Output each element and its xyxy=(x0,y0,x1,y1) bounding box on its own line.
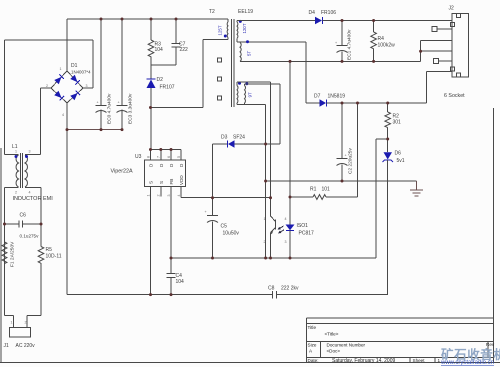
svg-text:1: 1 xyxy=(15,150,17,154)
svg-text:AC 220v: AC 220v xyxy=(16,343,36,349)
svg-text:SF24: SF24 xyxy=(233,135,245,141)
svg-text:1: 1 xyxy=(60,67,62,71)
svg-text:6: 6 xyxy=(167,156,171,158)
svg-text:+: + xyxy=(345,154,347,158)
svg-text:T2: T2 xyxy=(209,9,215,15)
svg-text:S: S xyxy=(149,181,154,184)
svg-text:+: + xyxy=(335,41,337,45)
svg-text:FR107: FR107 xyxy=(160,85,175,91)
svg-text:6 Socket: 6 Socket xyxy=(444,93,465,99)
svg-text:10u50v: 10u50v xyxy=(223,231,240,237)
svg-text:1: 1 xyxy=(264,217,266,221)
svg-text:2: 2 xyxy=(25,321,27,325)
svg-text:www.crystalradio.cn: www.crystalradio.cn xyxy=(440,360,494,366)
svg-text:100k2w: 100k2w xyxy=(378,43,396,49)
svg-text:Title: Title xyxy=(308,325,317,330)
svg-text:1N4007*4: 1N4007*4 xyxy=(71,70,91,75)
svg-text:C8: C8 xyxy=(268,286,275,292)
svg-text:R5: R5 xyxy=(46,247,53,253)
svg-text:INDUCTOR EMI: INDUCTOR EMI xyxy=(13,196,54,202)
svg-text:2: 2 xyxy=(15,191,17,195)
svg-text:Date:: Date: xyxy=(308,358,319,363)
svg-text:<Doc>: <Doc> xyxy=(327,349,341,354)
svg-text:D3: D3 xyxy=(221,135,228,141)
svg-text:PC817: PC817 xyxy=(299,231,315,237)
svg-text:4: 4 xyxy=(285,217,287,221)
svg-text:EEL19: EEL19 xyxy=(238,9,253,15)
svg-text:Viper22A: Viper22A xyxy=(111,169,133,175)
svg-text:FR106: FR106 xyxy=(321,10,336,16)
svg-text:2: 2 xyxy=(46,84,48,88)
svg-text:4: 4 xyxy=(177,195,181,197)
svg-text:104: 104 xyxy=(176,279,185,285)
svg-text:4: 4 xyxy=(29,191,31,195)
svg-text:5T: 5T xyxy=(247,51,252,56)
svg-text:VDD: VDD xyxy=(179,175,184,185)
svg-text:D4: D4 xyxy=(309,10,316,16)
svg-text:1: 1 xyxy=(146,195,150,197)
svg-text:EC0 4.7u400v: EC0 4.7u400v xyxy=(107,93,113,124)
svg-text:10D-11: 10D-11 xyxy=(46,254,62,260)
svg-text:+: + xyxy=(97,101,99,105)
svg-text:Document Number: Document Number xyxy=(327,343,366,348)
svg-text:7: 7 xyxy=(157,156,161,158)
svg-text:D7: D7 xyxy=(314,94,321,100)
svg-text:3: 3 xyxy=(86,84,88,88)
svg-text:5v1: 5v1 xyxy=(397,158,405,164)
svg-text:J1: J1 xyxy=(4,343,10,349)
svg-text:0.1u275v: 0.1u275v xyxy=(20,234,40,239)
svg-text:D6: D6 xyxy=(395,151,402,157)
svg-text:R1: R1 xyxy=(310,187,317,193)
svg-text:301: 301 xyxy=(393,120,402,126)
svg-text:1N5819: 1N5819 xyxy=(328,94,346,100)
svg-text:Sheet: Sheet xyxy=(413,358,426,363)
svg-text:+: + xyxy=(118,101,120,105)
svg-text:120T: 120T xyxy=(242,23,247,33)
svg-text:2: 2 xyxy=(264,240,266,244)
svg-text:222 2kv: 222 2kv xyxy=(281,286,299,292)
svg-text:Saturday, February 14, 2009: Saturday, February 14, 2009 xyxy=(332,358,395,364)
svg-text:2: 2 xyxy=(157,195,161,197)
svg-text:101: 101 xyxy=(322,187,331,193)
svg-text:D2: D2 xyxy=(157,77,164,83)
svg-text:9T: 9T xyxy=(248,92,253,97)
svg-text:4: 4 xyxy=(62,113,64,117)
svg-text:<Title>: <Title> xyxy=(325,332,339,337)
svg-text:3: 3 xyxy=(285,240,287,244)
svg-text:8: 8 xyxy=(146,156,150,158)
svg-text:S: S xyxy=(159,181,164,184)
svg-text:F1 2A/250V: F1 2A/250V xyxy=(10,241,16,267)
svg-text:C6: C6 xyxy=(20,213,27,219)
svg-text:Rev: Rev xyxy=(486,342,495,347)
svg-text:FB: FB xyxy=(169,179,174,185)
svg-text:D1: D1 xyxy=(71,63,78,69)
svg-text:C5: C5 xyxy=(221,224,228,230)
svg-text:C2 220u25v: C2 220u25v xyxy=(348,148,354,174)
svg-text:222: 222 xyxy=(180,47,189,53)
svg-text:3: 3 xyxy=(167,195,171,197)
svg-text:104: 104 xyxy=(155,47,164,53)
svg-text:R4: R4 xyxy=(378,36,385,42)
svg-text:J2: J2 xyxy=(449,6,455,12)
svg-text:3: 3 xyxy=(29,150,31,154)
svg-text:5: 5 xyxy=(177,156,181,158)
svg-text:+: + xyxy=(205,210,207,214)
svg-text:U3: U3 xyxy=(135,154,142,160)
svg-text:1: 1 xyxy=(11,321,13,325)
svg-text:Size: Size xyxy=(308,343,317,348)
svg-text:EC3 3.3u400v: EC3 3.3u400v xyxy=(128,93,134,124)
svg-text:ISO1: ISO1 xyxy=(297,223,309,229)
svg-text:125T: 125T xyxy=(218,25,223,35)
svg-text:EC1 4.7u400v: EC1 4.7u400v xyxy=(347,29,353,60)
